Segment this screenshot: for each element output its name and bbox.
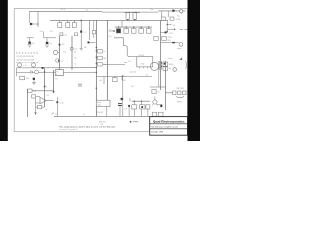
node junction [37,23,38,24]
wire input riser [44,68,46,107]
svg-text:100k: 100k [26,78,30,80]
label 55v [151,9,154,11]
wire drop x59 [59,36,61,70]
node q4 top [122,75,123,76]
ground C3 [45,45,49,47]
label 0v [83,114,85,116]
svg-text:0R3: 0R3 [168,40,171,42]
resistor R19 [98,62,103,66]
node j96a3 [96,63,97,64]
wire fuse line [158,10,186,12]
wire input left join [16,68,18,76]
svg-text:50u: 50u [173,25,176,27]
svg-text:10k: 10k [131,86,134,88]
label 560 [139,55,145,57]
wire input a [17,67,97,69]
node x59 top [59,44,61,46]
wire input b [17,71,97,73]
legend dashed rule [16,52,39,54]
node rail junction [80,20,82,22]
jack J3 [35,70,39,74]
capacitor C9 node [56,101,58,103]
label Q2b [74,58,77,60]
label C9 [60,101,64,104]
label 47k2 [128,61,131,63]
svg-text:Tr2: Tr2 [61,61,63,63]
wire U1 in bot [36,102,41,104]
wire stub row3 [140,27,142,29]
node row2 [126,26,127,27]
resistor R33 [132,105,137,109]
node l1 [134,101,135,102]
label b2 [122,80,127,82]
wire stub row1 [125,27,127,29]
label R38 [157,92,160,94]
wire fb drop [35,98,37,112]
capacitor C10 [128,105,130,107]
wire pair c [158,61,160,87]
svg-text:Date Apr 1968: Date Apr 1968 [151,130,163,133]
resistor R4 above rail [126,13,130,20]
node row4 [141,26,142,27]
label v24 [40,31,44,33]
node j96a1 [96,50,97,51]
label arrow [168,57,173,60]
wire +55V supply line [30,10,159,13]
label low2 [55,113,58,115]
wire drop x122 [121,20,123,27]
svg-text:56k: 56k [84,47,87,49]
wire drop l2 [140,101,142,105]
title block rule 2 [150,128,188,130]
net dash b [185,29,188,31]
svg-text:MJ481: MJ481 [169,64,174,66]
label 21v rail [86,10,89,12]
wire stub R3 [73,20,75,23]
source SG1 [53,50,59,54]
label bias2 [131,86,134,88]
wire corner right [150,86,166,88]
scan black band left [0,0,8,141]
resistor R11 [60,33,63,36]
label R23 [169,64,174,66]
wire fb line [161,31,168,33]
resistor R13 [75,33,78,36]
node input low [44,86,46,88]
resistor R39 [173,91,176,95]
wire stub R2 [67,20,69,23]
resistor R17 [98,49,103,53]
resistor R3 [72,23,76,28]
wire center vertical [95,20,97,116]
op-amp U1 [40,97,46,103]
wire cap feed a [27,37,34,39]
terminal T3 [173,68,177,72]
ground stubs x81 [80,49,83,51]
wire stub c5 [140,109,142,116]
label R20 [168,37,173,39]
wire stub b1 [103,76,105,84]
pot wiper mark [31,71,33,73]
svg-text:10u: 10u [64,51,67,53]
resistor R29 feedback [32,95,36,98]
arrow bias [109,28,116,32]
svg-text:1k: 1k [103,51,105,53]
svg-text:Quad Electroacoustics: Quad Electroacoustics [153,120,185,124]
brace spk [176,96,184,98]
label stage top [64,34,68,36]
wire stub 101 [129,98,131,101]
node row1 [118,26,119,27]
wire cap stub [167,23,171,25]
label 1k [74,52,77,54]
svg-text:+55 V: +55 V [60,9,66,11]
svg-text:0 v: 0 v [83,114,85,116]
wire drop x81 [80,33,82,48]
wire drop x107 [106,20,108,100]
svg-text:+12v: +12v [50,31,54,33]
label bias3 [146,74,149,76]
svg-text:47k: 47k [62,44,65,46]
node j96c [96,72,97,73]
wire link R4 R5 [124,12,140,13]
svg-text:SPKR: SPKR [177,102,182,104]
capacitor C5 [157,104,162,107]
wire cap drop [166,20,168,33]
legend dashed rule 2 [16,62,39,64]
wire link 101 [132,100,151,102]
svg-text:This audio board is used in al: This audio board is used in all la te se… [59,126,116,129]
node p2 [161,66,162,67]
wire stub c1 [106,107,108,117]
wire arrow stub [167,28,176,30]
svg-text:+24v: +24v [40,31,44,33]
title block rule 1 [150,123,188,125]
wire cap riser [43,32,45,38]
label 10u [64,51,67,53]
node cd1 [167,24,168,25]
wire stub c6 [147,109,149,116]
wire pair b [161,61,163,70]
svg-text:50u: 50u [32,43,35,45]
bracket out [185,61,188,69]
wire board edge top [27,90,54,92]
wire drop left [29,11,31,23]
label spk1 [177,88,184,90]
capacitor C1 reservoir [30,23,38,25]
label lamp [177,16,180,18]
label R28 [33,91,37,93]
capacitor C6 [165,32,167,34]
label low [46,109,48,111]
resistor R2 [66,23,70,28]
ground arrow G2 [34,112,36,115]
svg-text:4u7: 4u7 [100,80,103,82]
resistor R21 [162,36,166,40]
label R19 [103,64,106,66]
ground G1 [32,80,36,85]
label 220k [97,112,104,114]
wire drop x57 [56,97,58,116]
svg-text:0R22 5W: 0R22 5W [177,88,184,90]
label T1 [177,47,182,50]
resistor R38 [152,89,156,93]
svg-text:Tr1: Tr1 [83,32,85,34]
title block frame [150,117,188,136]
lamp LP1 [180,10,183,15]
net mark [130,121,138,123]
svg-text:2n2: 2n2 [55,113,58,115]
label notes1 [99,122,105,124]
wire riser b [167,11,169,17]
node row5 [148,26,149,27]
resistor R20 [154,36,158,40]
svg-text:47k: 47k [128,61,131,63]
node j96d [96,88,97,89]
wire U1 in top [36,95,41,97]
node p1 [161,62,162,63]
jack J2 [31,63,35,68]
node j96a [96,47,97,48]
label v12 [50,31,54,33]
svg-text:fuse: fuse [177,16,180,18]
svg-text:0R5: 0R5 [170,33,173,35]
wire cap feed b [44,37,57,39]
net dash a [180,29,183,31]
label cap [173,25,176,27]
wire bus 116 [54,115,150,117]
diode D1 [179,57,182,60]
wire stub c3 [128,107,130,117]
label R21 [168,40,171,42]
scan black band right [188,0,201,141]
resistor R18 [98,56,103,60]
wire step [114,38,137,57]
note text 2 [59,128,78,131]
resistor R6 [116,29,120,33]
resistor R7 [124,29,129,34]
wire low link [36,106,45,108]
resistor R42 [161,17,165,20]
label R17 [103,51,105,53]
module box M2 [137,57,153,67]
title block date [151,130,163,133]
transistor Q1a [80,31,82,33]
svg-text:90: 90 [56,71,58,73]
label M2 [141,63,145,66]
resistor R34 [140,105,146,109]
resistor R8 [131,29,136,34]
transistor Q4 [121,98,124,100]
label R43 [176,18,181,21]
resistor R1 [58,23,62,28]
ground C2 [28,45,32,47]
label fb [170,33,173,35]
svg-text:12v: 12v [146,74,149,76]
wire stub R1 [59,20,61,23]
title block title [151,125,178,128]
svg-text:R1 R2 R3 R4 R5 R6: R1 R2 R3 R4 R5 R6 [17,56,34,58]
svg-text:0.56: 0.56 [109,36,112,38]
wire U1 out [46,100,53,102]
wire c8 drop [119,106,121,117]
wire drop [37,11,39,27]
label 56k [84,47,87,49]
label lvl [75,63,77,65]
transistor Q2 [56,59,60,63]
resistor R23 [163,62,168,66]
svg-text:+21v: +21v [74,48,78,50]
svg-text:+21: +21 [86,10,89,12]
label C2 [32,43,35,45]
label pw [56,79,59,81]
wire spk link [166,92,173,94]
wire q4 drop [122,76,124,116]
wire board edge left [26,89,28,117]
resistor R9 [139,29,144,34]
label M1 [97,101,101,107]
svg-text:1k5: 1k5 [157,92,160,94]
svg-text:fb: fb [46,86,47,88]
svg-text:1k0: 1k0 [74,52,77,54]
label b1 [100,80,103,82]
label Q1a [83,32,85,34]
svg-text:IC2: IC2 [47,95,50,97]
resistor R28 input [28,89,32,92]
capacitor C7 inline [42,67,44,69]
net slash [52,113,55,115]
label +55V [60,9,66,11]
fuse F2 [172,42,175,43]
node cd2 [167,31,168,32]
legend text row2 [17,60,34,62]
module box M1 [96,100,110,106]
node j96b [96,67,97,68]
legend text row1 [17,56,34,58]
node l2 [141,101,142,102]
label notes2 [100,124,103,126]
arrow x53 [52,91,54,93]
wire drop x53 [53,70,55,91]
node R5 rail [134,19,135,20]
svg-text:50u: 50u [49,43,52,45]
svg-text:L ch: L ch [23,65,26,67]
wire bias bus [115,26,152,28]
node input [44,71,46,73]
svg-text:55v: 55v [151,9,154,11]
wire drop x80 [80,20,82,33]
svg-text:1n: 1n [46,109,48,111]
resistor R27 [20,76,25,80]
wire drop x165 [165,61,167,110]
node R4 rail [127,19,128,20]
wire drop x160 [160,20,162,90]
label RL1 [56,71,58,75]
wire stub b2 [121,76,123,80]
resistor R5 above rail [133,13,137,20]
resistor R24 [163,67,168,71]
fuse F1 [172,10,174,12]
resistor R43 [170,17,174,20]
label J1 [23,65,26,67]
label R24 [169,68,172,70]
wire drop l1 [133,101,135,105]
capacitor C8 [118,103,122,106]
transistor Q3a blob [88,41,96,43]
wire bus 76 [96,75,152,77]
svg-text:10k 4k7 22k 1k0 330: 10k 4k7 22k 1k0 330 [17,60,34,62]
resistor tab1 [152,112,156,116]
label q4 [124,109,126,111]
title block maker [153,120,185,124]
net mark equals [78,84,82,86]
wire stub c4 [133,109,135,116]
label 47k [62,44,65,46]
label under M2 [130,70,137,73]
wire pair a [159,61,161,70]
label 21v [74,48,78,50]
transistor Q2a [70,47,73,50]
svg-text:82k: 82k [103,58,106,60]
wire +50V rail [50,19,168,21]
resistor R31 [113,76,118,82]
resistor tab2 [158,112,163,116]
label R27 [26,78,30,80]
resistor R12b [92,20,95,38]
label fb [46,86,47,88]
resistor R40 [178,91,181,95]
transistor Q5 [152,97,158,106]
wire mid link [103,64,125,66]
relay RL1 [55,70,63,76]
capacitor C4 [33,78,35,80]
wire drop x89 [89,20,91,40]
svg-text:33k: 33k [169,68,172,70]
wire drop x72 [71,36,73,70]
node j96a2 [96,57,97,58]
capacitor C2 [28,38,31,44]
wire out1 [161,42,179,44]
label U1 [47,95,50,97]
resistor R41 [183,91,186,95]
resistor R35 [146,105,150,109]
wire riser a [161,11,163,17]
label C3 [49,43,52,45]
wire stub row4 [148,27,150,29]
label bias [109,36,112,38]
svg-text:22k: 22k [74,58,77,60]
label spk2 [177,102,182,104]
svg-text:Title 303 power amplifier cir: Title 303 power amplifier circuits [151,125,178,128]
net tick [124,62,126,64]
label R18 [103,58,106,60]
label Q2 [61,61,63,63]
note text [59,126,116,129]
capacitor C3 [46,38,49,44]
resistor R30 low [38,105,42,108]
resistor R10 [146,29,151,34]
svg-text:220k 2W: 220k 2W [97,112,104,114]
ticks M2 [140,67,148,69]
wire stub row2 [133,27,135,29]
terminal T1 [179,42,183,46]
jack J1 [18,63,22,68]
svg-text:100k: 100k [33,91,37,93]
svg-text:Tr8: Tr8 [124,109,126,111]
node row3 [133,26,134,27]
transistor TR output [150,62,158,70]
